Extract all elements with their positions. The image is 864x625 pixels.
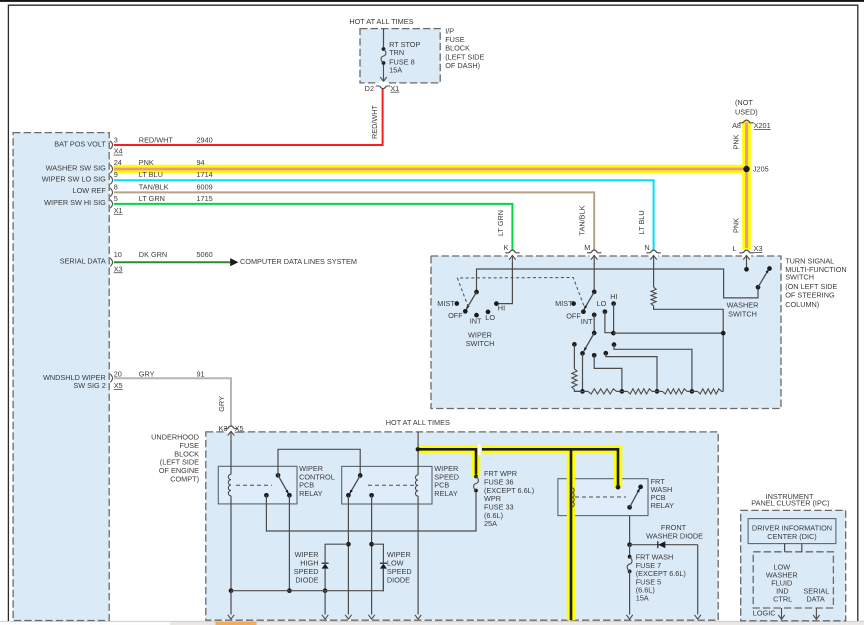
svg-text:WASHER DIODE: WASHER DIODE	[646, 532, 703, 541]
svg-text:HI: HI	[610, 292, 617, 301]
svg-text:A8: A8	[732, 121, 741, 130]
svg-text:GRY: GRY	[139, 370, 155, 379]
svg-text:OFF: OFF	[448, 311, 463, 320]
svg-text:LT BLU: LT BLU	[637, 210, 646, 234]
svg-text:FRONT: FRONT	[661, 523, 687, 532]
svg-text:PNK: PNK	[731, 218, 740, 233]
svg-text:COLUMN): COLUMN)	[785, 300, 819, 309]
svg-text:SWITCH: SWITCH	[466, 339, 495, 348]
svg-text:DIODE: DIODE	[295, 576, 318, 585]
svg-text:X201: X201	[754, 121, 771, 130]
svg-text:INT: INT	[581, 317, 593, 326]
svg-text:WIPER SW LO SIG: WIPER SW LO SIG	[42, 175, 106, 184]
svg-text:LT GRN: LT GRN	[496, 210, 505, 236]
svg-text:RELAY: RELAY	[434, 489, 458, 498]
svg-text:94: 94	[197, 158, 205, 167]
svg-text:D2: D2	[365, 84, 374, 93]
svg-text:OF STEERING: OF STEERING	[785, 291, 835, 300]
svg-text:2940: 2940	[197, 135, 213, 144]
svg-text:8: 8	[114, 182, 118, 191]
svg-text:LT BLU: LT BLU	[139, 170, 163, 179]
svg-text:1715: 1715	[197, 194, 213, 203]
svg-text:SWITCH: SWITCH	[785, 273, 814, 282]
svg-text:LT GRN: LT GRN	[139, 194, 165, 203]
svg-text:RELAY: RELAY	[299, 489, 323, 498]
svg-text:X5: X5	[114, 381, 123, 390]
svg-text:LO: LO	[485, 313, 495, 322]
svg-text:K: K	[504, 243, 509, 252]
svg-text:MIST: MIST	[437, 299, 455, 308]
svg-text:J205: J205	[753, 165, 769, 174]
svg-text:X3: X3	[754, 244, 763, 253]
svg-text:BAT POS VOLT: BAT POS VOLT	[54, 140, 106, 149]
svg-text:25A: 25A	[484, 519, 497, 528]
svg-text:OFF: OFF	[566, 311, 581, 320]
svg-text:RED/WHT: RED/WHT	[139, 135, 174, 144]
svg-text:HOT AT ALL TIMES: HOT AT ALL TIMES	[386, 418, 450, 427]
svg-text:LO: LO	[597, 299, 607, 308]
svg-text:PANEL CLUSTER (IPC): PANEL CLUSTER (IPC)	[751, 499, 829, 508]
svg-text:WASHER: WASHER	[727, 301, 759, 310]
svg-text:5: 5	[114, 194, 118, 203]
svg-text:TAN/BLK: TAN/BLK	[578, 205, 587, 235]
svg-text:L: L	[733, 244, 737, 253]
svg-text:15A: 15A	[636, 594, 649, 603]
svg-text:5060: 5060	[197, 250, 213, 259]
svg-text:OF DASH): OF DASH)	[445, 61, 480, 70]
svg-text:N: N	[644, 243, 649, 252]
svg-text:COMPUTER DATA LINES SYSTEM: COMPUTER DATA LINES SYSTEM	[240, 257, 357, 266]
svg-text:20: 20	[114, 370, 122, 379]
svg-text:WIPER SW HI SIG: WIPER SW HI SIG	[44, 198, 106, 207]
svg-text:K3: K3	[219, 424, 228, 433]
svg-text:USED): USED)	[735, 108, 758, 117]
svg-text:HOT AT ALL TIMES: HOT AT ALL TIMES	[349, 17, 413, 26]
svg-text:9: 9	[114, 170, 118, 179]
svg-text:1714: 1714	[197, 170, 213, 179]
svg-text:3: 3	[114, 135, 118, 144]
svg-text:LOW REF: LOW REF	[73, 186, 107, 195]
svg-text:TRN: TRN	[389, 48, 404, 57]
svg-text:WASHER SW SIG: WASHER SW SIG	[46, 163, 106, 172]
svg-text:SERIAL DATA: SERIAL DATA	[60, 257, 106, 266]
svg-text:15A: 15A	[389, 65, 402, 74]
svg-text:DIODE: DIODE	[387, 576, 410, 585]
svg-text:X1: X1	[114, 206, 123, 215]
svg-text:LOGIC: LOGIC	[753, 608, 776, 617]
svg-text:CENTER (DIC): CENTER (DIC)	[767, 532, 816, 541]
svg-text:X5: X5	[235, 424, 244, 433]
svg-text:COMPT): COMPT)	[170, 474, 199, 483]
svg-text:(NOT: (NOT	[735, 98, 753, 107]
svg-text:INT: INT	[470, 316, 482, 325]
svg-text:PNK: PNK	[139, 158, 154, 167]
svg-text:RED/WHT: RED/WHT	[370, 104, 379, 139]
svg-text:X3: X3	[114, 264, 123, 273]
svg-text:M: M	[584, 243, 590, 252]
svg-text:GRY: GRY	[217, 396, 226, 412]
svg-text:X4: X4	[114, 147, 123, 156]
svg-text:24: 24	[114, 158, 122, 167]
svg-text:CTRL: CTRL	[773, 594, 792, 603]
svg-text:SWITCH: SWITCH	[728, 309, 757, 318]
svg-text:10: 10	[114, 250, 122, 259]
svg-text:91: 91	[197, 370, 205, 379]
svg-text:X1: X1	[390, 84, 399, 93]
svg-text:6009: 6009	[197, 182, 213, 191]
svg-text:RELAY: RELAY	[651, 501, 675, 510]
svg-text:SW SIG 2: SW SIG 2	[73, 381, 105, 390]
svg-text:DATA: DATA	[806, 594, 825, 603]
svg-text:MIST: MIST	[555, 299, 573, 308]
svg-text:PNK: PNK	[731, 134, 740, 149]
svg-text:DK GRN: DK GRN	[139, 250, 167, 259]
svg-text:TAN/BLK: TAN/BLK	[139, 182, 169, 191]
svg-text:HI: HI	[498, 304, 505, 313]
